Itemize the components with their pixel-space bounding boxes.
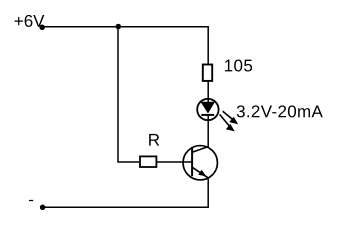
- label -: [28, 190, 34, 209]
- svg-text:-: -: [28, 190, 34, 209]
- wire left vertical: [118, 27, 139, 162]
- wire bottom: [43, 206, 209, 208]
- LED light arrows: [220, 111, 239, 131]
- wire LED to transistor collector: [207, 120, 209, 148]
- resistor 105: [203, 65, 212, 81]
- wire top: [42, 27, 208, 64]
- wire resistor to LED: [207, 81, 209, 100]
- terminal -: [40, 205, 46, 211]
- label 3.2V-20mA: [236, 102, 323, 121]
- label +6V: [14, 12, 45, 31]
- label 105: [224, 56, 254, 75]
- resistor R: [140, 156, 156, 167]
- svg-text:3.2V-20mA: 3.2V-20mA: [236, 102, 323, 121]
- terminal +6V: [39, 25, 45, 31]
- svg-text:R: R: [148, 131, 160, 150]
- transistor Q1: [183, 146, 217, 180]
- label R: [148, 131, 160, 150]
- wire emitter to bottom: [207, 179, 209, 208]
- LED D1: [197, 99, 218, 120]
- wire base: [157, 161, 192, 163]
- svg-text:105: 105: [224, 56, 254, 75]
- node junction: [116, 24, 122, 30]
